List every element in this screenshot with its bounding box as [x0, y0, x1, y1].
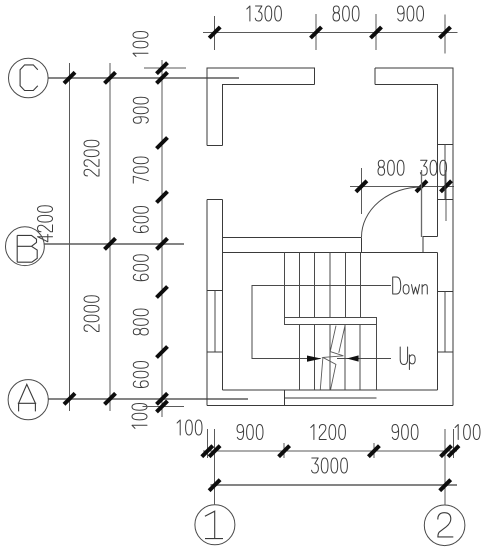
extension [444, 15, 446, 54]
dimension column 2200/2000 (x=110) [109, 63, 111, 411]
stem to bubble 2 [444, 429, 446, 505]
dim label 700 left-chain [133, 157, 148, 183]
extension [214, 16, 216, 50]
extension [375, 14, 377, 50]
tick [311, 27, 322, 38]
tick [368, 446, 379, 457]
stair break line [320, 326, 345, 390]
tick on 3000 line [209, 480, 220, 491]
wall top-right cap [374, 68, 376, 84]
grid line C [48, 77, 239, 79]
wall left inner edge [222, 200, 224, 391]
tick [157, 192, 168, 203]
tick [441, 181, 452, 192]
dimension column right chain (x=162) [161, 60, 163, 417]
tick [209, 27, 220, 38]
dim label 300 door [420, 160, 446, 175]
wall cap [207, 145, 223, 147]
stem to bubble 1 [214, 429, 216, 505]
down path arrowhead [307, 356, 322, 362]
bottom band stair left vertical [284, 390, 286, 406]
tick [64, 393, 75, 404]
label Down [393, 277, 428, 294]
dim label 900 left-chain [133, 97, 148, 123]
dim label 100 bottom-right [455, 425, 480, 440]
tick [279, 446, 290, 457]
extension [373, 443, 375, 458]
up leader line [337, 357, 391, 359]
dim label 900 top [398, 6, 424, 21]
tick on 3000 line [440, 480, 451, 491]
tick [157, 72, 168, 83]
bottom dimension line [203, 450, 457, 452]
dim label 900 bottom [392, 425, 418, 440]
grid line A [48, 398, 248, 400]
bottom wall outer [207, 405, 453, 407]
down path line [252, 286, 391, 359]
grid bubble 2 [424, 505, 465, 546]
extension [206, 429, 208, 458]
extension [445, 170, 447, 221]
dim label 100 left-chain [133, 32, 148, 57]
mid landing bar [285, 317, 377, 324]
up arrowhead [347, 355, 359, 361]
tick [448, 446, 459, 457]
tick [157, 238, 168, 249]
extension [283, 443, 285, 458]
dim label 100 bottom-left [177, 420, 202, 435]
wall top-right outer [375, 68, 453, 406]
grid bubble A [8, 380, 48, 420]
right window2 mid [444, 292, 446, 352]
tick [440, 27, 451, 38]
wall left outer edge [206, 200, 208, 406]
right window2 cap bottom [437, 351, 453, 353]
dim label 800 door [378, 160, 404, 175]
tick [64, 72, 75, 83]
extension line bottom 100 [143, 405, 184, 407]
left window cap bottom [207, 351, 222, 353]
left window mid line [214, 291, 216, 353]
extension [315, 14, 317, 50]
grid bubble B [6, 227, 45, 266]
tick [157, 138, 168, 149]
stair upper flight treads [285, 252, 361, 317]
door leaf [421, 170, 423, 237]
bottom wall inner [223, 389, 438, 391]
left window cap top [207, 290, 222, 292]
tick [371, 27, 382, 38]
right window1 cap top [437, 143, 453, 145]
wall top-left L outer [207, 68, 314, 146]
dim label 600 left-chain [133, 207, 148, 233]
door jamb step [423, 236, 437, 252]
label Up [400, 347, 415, 370]
right wall inner segment [436, 252, 438, 390]
dim label 4200 left-total [38, 206, 53, 242]
door jamb left cap [361, 237, 363, 252]
door swing arc [362, 187, 422, 237]
dim label 600 left-chain [133, 255, 148, 281]
wall top-left L inner [223, 84, 315, 145]
door dimension line 800/300 [350, 185, 454, 187]
dim label 1200 bottom [311, 425, 346, 440]
top dimension line [203, 32, 457, 34]
tick [157, 287, 168, 298]
extension [453, 429, 455, 458]
tick [157, 393, 168, 404]
dim label 800 left-chain [133, 309, 148, 335]
dim label 900 bottom [237, 425, 263, 440]
dim label 1300 top [247, 6, 282, 21]
dim label 100 left-chain-bottom [132, 404, 147, 429]
dim label 2200 left [84, 140, 99, 176]
tick [416, 181, 427, 192]
tick [105, 393, 116, 404]
tick [157, 63, 168, 74]
tick [209, 446, 220, 457]
tick [356, 181, 367, 192]
extension [360, 168, 362, 214]
stair room top wall inner / threshold [223, 251, 438, 253]
dim label 2000 left [84, 296, 99, 332]
right window1 cap bottom [437, 198, 453, 200]
tick [441, 446, 452, 457]
tick [157, 347, 168, 358]
tick [105, 72, 116, 83]
wall top-right inner [375, 84, 437, 236]
wall left mid cap [207, 199, 223, 201]
tick [202, 446, 213, 457]
bottom band stair line [285, 397, 377, 399]
right window1 mid [444, 144, 446, 199]
tick [105, 238, 116, 249]
dim label 3000 bottom-total [312, 458, 348, 473]
stair room top wall outer [223, 236, 362, 238]
stair right boundary [375, 325, 377, 390]
right window2 cap top [437, 291, 453, 293]
grid bubble 1 [195, 505, 235, 545]
tick [157, 401, 168, 412]
extension line top 100 [144, 67, 186, 69]
stair lower flight treads [300, 325, 361, 390]
grid line B [44, 243, 184, 245]
dim label 800 top [333, 6, 359, 21]
grid bubble C [9, 58, 49, 98]
dim label 600 left-chain [133, 362, 148, 388]
overall bottom dimension line 3000 [211, 484, 458, 486]
dimension column 4200 (x=69.5) [69, 63, 71, 411]
